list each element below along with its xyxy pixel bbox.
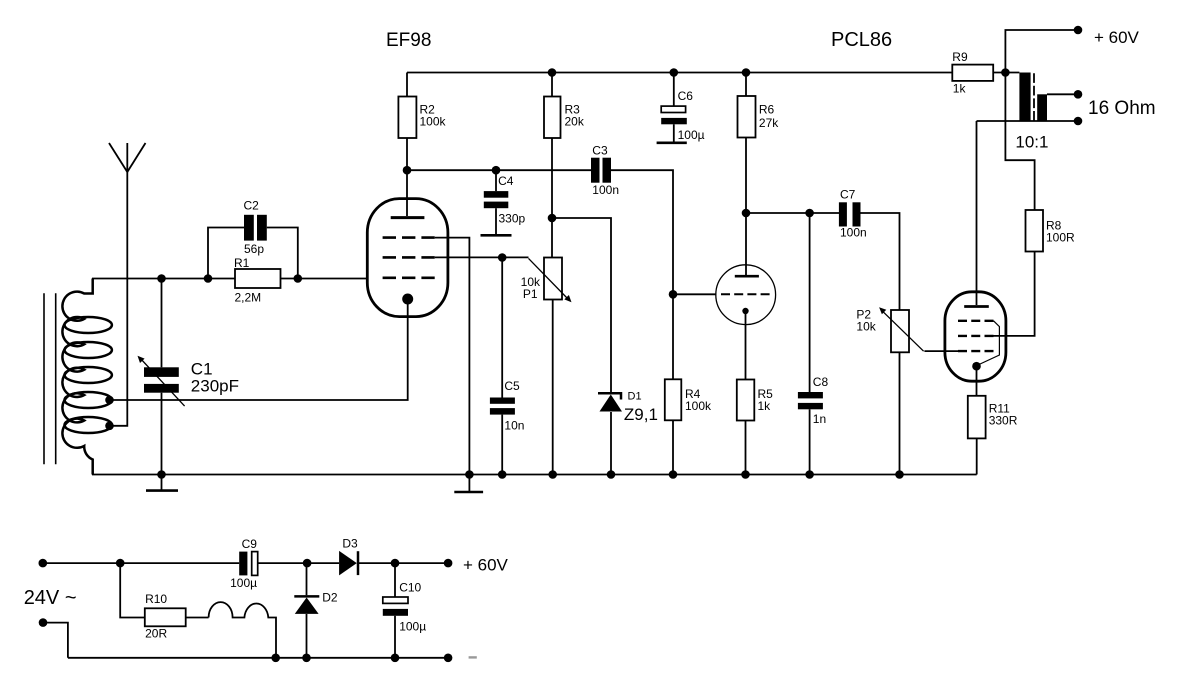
svg-text:100k: 100k <box>420 115 447 129</box>
svg-text:330p: 330p <box>499 211 526 225</box>
svg-text:1k: 1k <box>758 399 772 413</box>
svg-text:C6: C6 <box>678 89 694 103</box>
svg-text:100k: 100k <box>685 399 712 413</box>
svg-text:+ 60V: + 60V <box>1094 28 1140 47</box>
svg-text:EF98: EF98 <box>386 30 431 51</box>
svg-text:56p: 56p <box>244 242 264 256</box>
svg-text:D1: D1 <box>628 391 642 403</box>
svg-text:16 Ohm: 16 Ohm <box>1088 98 1156 119</box>
svg-text:20R: 20R <box>145 626 167 640</box>
svg-text:1n: 1n <box>813 412 826 426</box>
svg-text:C2: C2 <box>244 199 260 213</box>
svg-text:27k: 27k <box>759 116 779 130</box>
svg-text:D2: D2 <box>322 591 338 605</box>
svg-text:100µ: 100µ <box>230 576 257 590</box>
svg-text:C8: C8 <box>813 375 829 389</box>
svg-text:100µ: 100µ <box>399 620 426 634</box>
svg-text:10:1: 10:1 <box>1015 132 1048 151</box>
svg-text:C10: C10 <box>399 580 421 594</box>
svg-text:PCL86: PCL86 <box>831 29 892 51</box>
svg-text:C7: C7 <box>840 188 856 202</box>
svg-text:P1: P1 <box>523 287 538 301</box>
svg-text:2,2M: 2,2M <box>235 291 262 305</box>
svg-text:Z9,1: Z9,1 <box>624 405 658 424</box>
svg-text:20k: 20k <box>565 115 585 129</box>
svg-text:R1: R1 <box>234 256 250 270</box>
svg-text:100µ: 100µ <box>678 128 705 142</box>
svg-text:10n: 10n <box>504 419 524 433</box>
svg-text:100n: 100n <box>592 183 619 197</box>
svg-text:C4: C4 <box>498 174 514 188</box>
svg-text:R10: R10 <box>145 592 167 606</box>
svg-text:C5: C5 <box>504 379 520 393</box>
svg-text:1k: 1k <box>953 81 967 95</box>
svg-text:D3: D3 <box>342 536 358 550</box>
svg-text:24V ~: 24V ~ <box>24 587 77 609</box>
svg-text:230pF: 230pF <box>191 377 239 396</box>
svg-text:R9: R9 <box>952 50 968 64</box>
svg-text:C3: C3 <box>592 143 608 157</box>
svg-text:100R: 100R <box>1046 231 1075 245</box>
svg-text:100n: 100n <box>840 226 867 240</box>
svg-text:R6: R6 <box>759 103 775 117</box>
svg-text:330R: 330R <box>989 414 1018 428</box>
svg-text:C9: C9 <box>242 537 258 551</box>
svg-text:10k: 10k <box>856 320 876 334</box>
svg-text:+ 60V: + 60V <box>463 555 509 574</box>
